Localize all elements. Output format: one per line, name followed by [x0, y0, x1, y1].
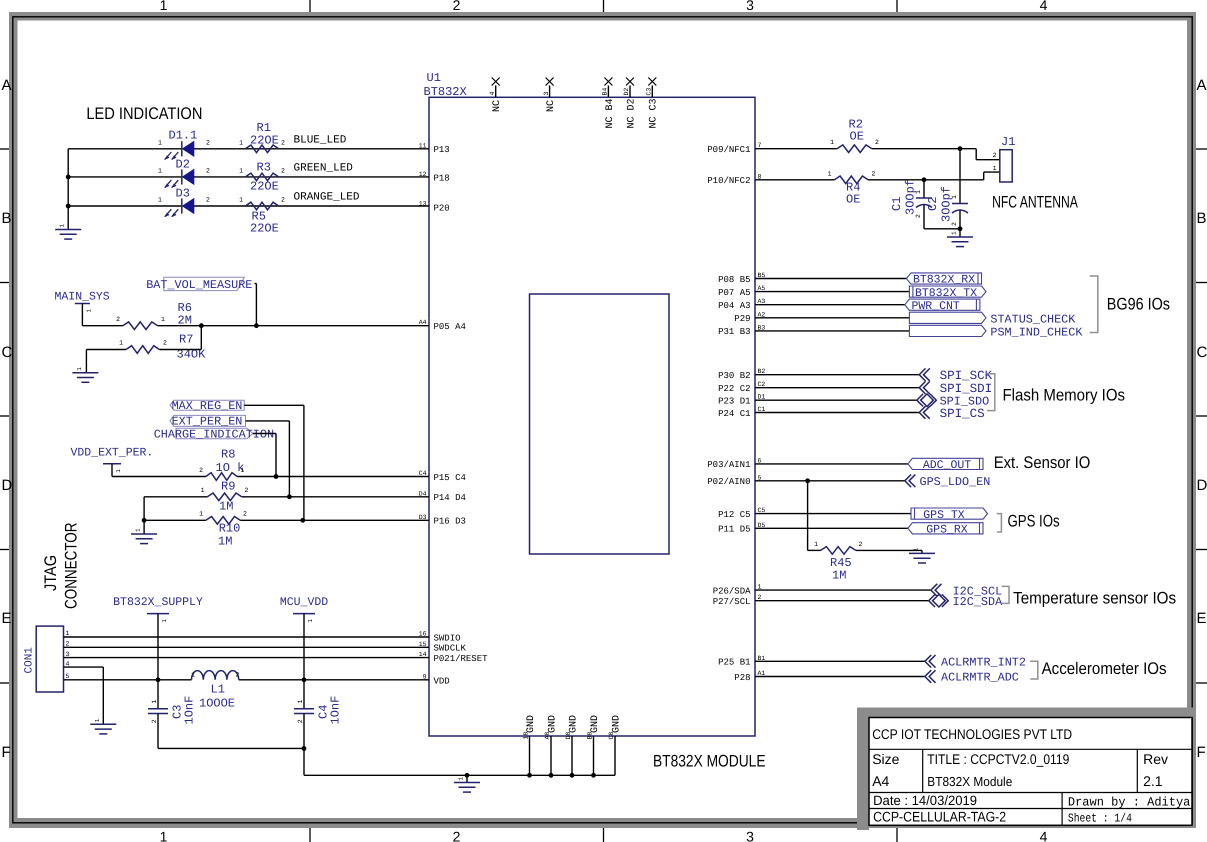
- section header NFC ANTENNA: [992, 192, 1078, 211]
- connector J1: [993, 135, 1016, 182]
- svg-text:C1: C1: [890, 197, 904, 211]
- svg-text:NC B4: NC B4: [605, 98, 616, 128]
- svg-text:Size: Size: [872, 751, 899, 767]
- svg-text:1M: 1M: [832, 569, 846, 583]
- svg-text:1: 1: [951, 195, 958, 199]
- svg-text:2: 2: [245, 487, 249, 494]
- wire P02/AIN0 row: [755, 480, 905, 482]
- resistor R4 0E: [828, 170, 876, 206]
- node NFC2/C1 junction: [922, 177, 927, 182]
- net flag BT832X_TX: [909, 286, 986, 300]
- svg-text:P29: P29: [734, 314, 750, 324]
- ground LED bus: [55, 224, 81, 240]
- svg-text:CCP-CELLULAR-TAG-2: CCP-CELLULAR-TAG-2: [873, 808, 1006, 824]
- svg-text:PSM_IND_CHECK: PSM_IND_CHECK: [990, 325, 1083, 339]
- wire RESET: [64, 657, 430, 659]
- svg-text:1: 1: [239, 167, 243, 174]
- svg-text:2: 2: [993, 152, 997, 159]
- svg-text:22OE: 22OE: [250, 222, 279, 236]
- svg-text:D: D: [1197, 477, 1207, 494]
- capacitor C1 300pf: [890, 179, 932, 229]
- LED D3: [158, 187, 210, 218]
- svg-text:1: 1: [151, 700, 158, 704]
- capacitor C2 300pf: [926, 149, 968, 229]
- svg-text:1: 1: [158, 139, 162, 146]
- svg-text:ADC_OUT: ADC_OUT: [923, 459, 971, 472]
- svg-text:1: 1: [66, 630, 70, 637]
- wire CON1 pin4 to ground: [64, 667, 104, 724]
- svg-text:B: B: [1197, 210, 1207, 227]
- node NFC1/C2 junction: [958, 146, 963, 151]
- node LED bus junction D2: [66, 175, 71, 180]
- svg-text:BT832X_SUPPLY: BT832X_SUPPLY: [113, 596, 203, 609]
- section header LED INDICATION: [86, 104, 202, 123]
- U1 right pin names and numbers: [707, 142, 765, 683]
- U1 left pin names and numbers: [419, 142, 488, 686]
- svg-text:F: F: [2, 744, 11, 761]
- svg-text:U1: U1: [427, 71, 441, 85]
- svg-text:22OE: 22OE: [250, 134, 279, 148]
- net flag STATUS_CHECK: [909, 312, 1076, 326]
- svg-text:P30 B2: P30 B2: [718, 371, 750, 381]
- svg-text:NC D2: NC D2: [626, 98, 637, 128]
- wire R7 network: [86, 326, 201, 373]
- wire P08 row: [755, 278, 906, 280]
- svg-text:Rev: Rev: [1143, 751, 1168, 767]
- wire CHARGE_INDICATION to P15 row: [253, 434, 276, 477]
- svg-text:P08 B5: P08 B5: [718, 275, 750, 285]
- svg-text:SPI_SDO: SPI_SDO: [940, 395, 990, 409]
- svg-text:R9: R9: [221, 480, 235, 494]
- svg-text:P14 D4: P14 D4: [434, 493, 466, 503]
- svg-text:BT832X: BT832X: [424, 85, 467, 99]
- svg-text:2: 2: [453, 0, 461, 13]
- svg-text:P15 C4: P15 C4: [434, 473, 466, 483]
- svg-text:2: 2: [859, 541, 863, 548]
- node LED bus junction D3: [66, 204, 71, 209]
- wire R9R10 to ground: [143, 520, 145, 534]
- svg-text:1OOOE: 1OOOE: [199, 697, 235, 711]
- net flag BAT_VOL_MEASURE: [146, 277, 256, 325]
- net chevrons SPI_SCK: [919, 368, 992, 383]
- svg-text:P28: P28: [734, 673, 750, 683]
- svg-text:2: 2: [199, 467, 203, 474]
- resistor R9 1M: [201, 480, 249, 514]
- svg-text:1: 1: [307, 619, 314, 623]
- svg-text:P18: P18: [434, 174, 450, 184]
- svg-text:GPS_RX: GPS_RX: [926, 524, 968, 537]
- svg-text:1: 1: [458, 777, 465, 781]
- svg-text:P23 D1: P23 D1: [718, 397, 750, 407]
- power symbol BT832X_SUPPLY: [113, 596, 203, 680]
- node P14/EXT junction: [287, 494, 292, 499]
- svg-text:Date : 14/03/2019: Date : 14/03/2019: [873, 793, 977, 808]
- svg-text:1: 1: [158, 197, 162, 204]
- svg-text:1M: 1M: [218, 535, 232, 549]
- wire SPI_SCK row: [755, 374, 919, 376]
- svg-text:CCP IOT TECHNOLOGIES PVT LTD: CCP IOT TECHNOLOGIES PVT LTD: [872, 726, 1072, 742]
- svg-text:Ext. Sensor IO: Ext. Sensor IO: [994, 453, 1091, 472]
- wire SWDCLK: [64, 646, 430, 648]
- svg-text:P021/RESET: P021/RESET: [434, 654, 489, 664]
- svg-text:SWDIO: SWDIO: [434, 633, 461, 643]
- svg-text:2: 2: [163, 340, 167, 347]
- LED D2: [158, 158, 210, 189]
- inductor L1 1000E: [191, 671, 239, 711]
- svg-text:NC: NC: [492, 100, 503, 112]
- svg-text:P10/NFC2: P10/NFC2: [707, 176, 750, 186]
- svg-text:3: 3: [66, 651, 70, 658]
- svg-text:P12 C5: P12 C5: [718, 510, 750, 520]
- net flag GPS_RX: [908, 523, 983, 537]
- node R6/R7 junction: [199, 323, 204, 328]
- svg-text:4: 4: [66, 660, 70, 667]
- svg-text:2: 2: [281, 197, 285, 204]
- net chevrons GPS_LDO_EN: [905, 475, 990, 490]
- wire MAIN_SYS to R6: [82, 325, 122, 327]
- node C2 ground junction: [958, 226, 963, 231]
- svg-text:1: 1: [814, 541, 818, 548]
- svg-text:P24 C1: P24 C1: [718, 409, 750, 419]
- wire P09/NFC1 row: [755, 149, 1000, 160]
- svg-text:F: F: [1197, 744, 1206, 761]
- svg-text:GND: GND: [547, 715, 558, 733]
- svg-text:VDD: VDD: [434, 676, 450, 686]
- section label BT832X MODULE: [653, 752, 766, 771]
- resistor R8 10k: [199, 448, 244, 481]
- svg-text:D2: D2: [623, 88, 630, 96]
- resistor R3 22OE: [239, 161, 285, 194]
- svg-text:SPI_CS: SPI_CS: [940, 407, 985, 421]
- svg-text:GPS_LDO_EN: GPS_LDO_EN: [920, 475, 991, 489]
- net flag ADC_OUT: [908, 458, 983, 472]
- svg-text:D: D: [2, 477, 13, 494]
- svg-text:P27/SCL: P27/SCL: [713, 597, 751, 607]
- svg-text:I2C_SDA: I2C_SDA: [953, 595, 1003, 609]
- svg-text:EXT_PER_EN: EXT_PER_EN: [172, 415, 243, 429]
- svg-text:1OnF: 1OnF: [329, 696, 343, 725]
- svg-text:R10: R10: [219, 522, 241, 536]
- svg-text:J1: J1: [1001, 135, 1015, 149]
- net flag GPS_TX: [911, 508, 988, 522]
- net flag PWR_CNT: [905, 299, 980, 313]
- net flag CHARGE_INDICATION: [154, 428, 274, 442]
- wire P27/SCL row: [755, 600, 929, 602]
- svg-text:1: 1: [135, 528, 142, 532]
- svg-text:1: 1: [94, 718, 101, 722]
- svg-text:P03/AIN1: P03/AIN1: [707, 460, 750, 470]
- svg-text:3OOpf: 3OOpf: [940, 186, 954, 222]
- svg-text:1: 1: [115, 469, 122, 473]
- svg-text:1: 1: [915, 190, 922, 194]
- connector CON1: [24, 626, 64, 692]
- wire LED common bus: [67, 149, 69, 230]
- svg-text:P16 D3: P16 D3: [434, 517, 466, 527]
- node supply junction C3: [156, 677, 161, 682]
- net name BLUE_LED: [294, 135, 347, 147]
- svg-text:18: 18: [523, 732, 530, 740]
- capacitor C4 10nF: [294, 680, 343, 776]
- wire P11 row: [755, 527, 908, 529]
- net marker I2C_SDA bidirectional: [929, 594, 1003, 609]
- op-amp U1 BT832X module body: [429, 97, 755, 736]
- svg-text:1: 1: [241, 467, 245, 474]
- ground R7: [72, 367, 98, 383]
- node BAT_VOL_MEASURE tap: [254, 323, 259, 328]
- svg-text:C2: C2: [926, 197, 940, 211]
- svg-text:SPI_SCK: SPI_SCK: [940, 369, 993, 383]
- svg-text:BG96 IOs: BG96 IOs: [1107, 295, 1170, 314]
- svg-text:2: 2: [281, 139, 285, 146]
- svg-text:1: 1: [239, 139, 243, 146]
- U1 reference designator: [424, 71, 467, 99]
- bracket BG96 IOs: [1090, 276, 1170, 333]
- svg-text:P26/SDA: P26/SDA: [713, 586, 751, 596]
- wire P03/AIN1 row: [755, 463, 908, 465]
- svg-text:A4: A4: [872, 773, 889, 789]
- svg-text:BT832X Module: BT832X Module: [927, 774, 1012, 789]
- net chevrons ACLRMTR_ADC: [925, 670, 1019, 685]
- svg-text:2: 2: [281, 167, 285, 174]
- svg-text:P22 C2: P22 C2: [718, 384, 750, 394]
- svg-text:D8: D8: [565, 732, 572, 740]
- svg-text:2: 2: [151, 719, 158, 723]
- svg-text:R7: R7: [179, 333, 193, 347]
- svg-text:P05 A4: P05 A4: [434, 322, 466, 332]
- svg-text:D2: D2: [176, 158, 190, 172]
- svg-text:1: 1: [160, 829, 168, 842]
- svg-text:LED INDICATION: LED INDICATION: [86, 104, 202, 123]
- wire P12 row: [755, 513, 911, 515]
- svg-text:P31 B3: P31 B3: [718, 327, 750, 337]
- wire P04 row: [755, 304, 905, 306]
- svg-text:1: 1: [239, 197, 243, 204]
- svg-text:4: 4: [1040, 829, 1048, 842]
- svg-text:OE: OE: [846, 193, 860, 207]
- svg-text:GND: GND: [590, 715, 601, 733]
- svg-text:1: 1: [76, 367, 83, 371]
- resistor R7 340K: [119, 333, 206, 362]
- net name ORANGE_LED: [294, 192, 360, 204]
- resistor R5 22OE: [239, 197, 285, 236]
- resistor R10 1M: [199, 511, 247, 549]
- svg-text:1: 1: [160, 0, 168, 13]
- svg-text:A: A: [2, 77, 12, 94]
- net chevrons SPI_SDI: [919, 381, 992, 396]
- wire gnd bus drop: [466, 775, 468, 782]
- svg-text:PWR_CNT: PWR_CNT: [912, 300, 960, 313]
- svg-text:Accelerometer IOs: Accelerometer IOs: [1042, 659, 1167, 678]
- capacitor C3 10nF: [148, 680, 197, 749]
- svg-text:B4: B4: [602, 88, 609, 96]
- svg-text:P04 A3: P04 A3: [718, 301, 750, 311]
- svg-text:A8: A8: [544, 732, 551, 740]
- resistor R45 1M: [814, 541, 862, 583]
- svg-text:2: 2: [206, 197, 210, 204]
- svg-text:TITLE : CCPCTV2.0_0119: TITLE : CCPCTV2.0_0119: [927, 751, 1069, 767]
- section header JTAG CONNECTOR: [41, 523, 81, 610]
- svg-text:3: 3: [746, 829, 754, 842]
- node P15/CHARGE junction: [274, 474, 279, 479]
- wire P31 row: [755, 330, 909, 332]
- svg-text:C: C: [1197, 344, 1207, 361]
- svg-text:B8: B8: [587, 732, 594, 740]
- svg-text:C: C: [2, 344, 13, 361]
- wire ORANGE_LED row: [68, 205, 429, 207]
- bracket Accelerometer IOs: [1030, 659, 1166, 679]
- svg-text:C8: C8: [608, 732, 615, 740]
- bracket Temperature sensor IOs: [1002, 586, 1176, 607]
- svg-text:BT832X MODULE: BT832X MODULE: [653, 752, 766, 771]
- svg-text:1: 1: [201, 487, 205, 494]
- wire SPI_SDO row: [755, 399, 917, 401]
- svg-text:22OE: 22OE: [250, 180, 279, 194]
- net flag MAX_REG_EN: [170, 399, 244, 413]
- svg-text:Flash Memory IOs: Flash Memory IOs: [1003, 386, 1126, 405]
- svg-text:1: 1: [158, 167, 162, 174]
- svg-text:R3: R3: [257, 161, 271, 175]
- svg-text:L1: L1: [211, 682, 225, 696]
- svg-text:STATUS_CHECK: STATUS_CHECK: [990, 312, 1076, 326]
- wire P25 row: [755, 660, 925, 662]
- wire P14 row: [144, 497, 429, 521]
- svg-text:4: 4: [1040, 0, 1048, 13]
- svg-text:GPS_TX: GPS_TX: [923, 509, 965, 522]
- svg-text:Temperature sensor IOs: Temperature sensor IOs: [1013, 588, 1176, 607]
- U1 inner antenna outline: [530, 294, 670, 554]
- svg-text:ACLRMTR_INT2: ACLRMTR_INT2: [941, 656, 1026, 670]
- svg-text:1: 1: [828, 170, 832, 177]
- node MCU_VDD junction C4: [302, 677, 307, 682]
- svg-text:2: 2: [206, 167, 210, 174]
- svg-text:3: 3: [543, 92, 550, 96]
- U1 bottom GND pins: [523, 715, 623, 775]
- svg-text:2: 2: [116, 316, 120, 323]
- svg-text:2: 2: [236, 672, 240, 679]
- wire SPI_SDI row: [755, 387, 919, 389]
- wire GREEN_LED row: [68, 176, 429, 178]
- ground main: [454, 777, 480, 793]
- node P16/MAX junction: [300, 518, 305, 523]
- CON1 pin numbers: [66, 630, 70, 680]
- svg-text:VDD_EXT_PER.: VDD_EXT_PER.: [71, 447, 154, 460]
- svg-text:NC C3: NC C3: [649, 98, 660, 128]
- net chevrons SPI_CS: [919, 406, 984, 421]
- title block: [857, 708, 1193, 831]
- svg-text:1: 1: [119, 340, 123, 347]
- svg-text:1: 1: [85, 309, 92, 313]
- power symbol VDD_EXT_PER.: [71, 447, 154, 477]
- svg-text:2: 2: [951, 222, 958, 226]
- svg-text:BT832X_TX: BT832X_TX: [915, 287, 977, 300]
- svg-text:1: 1: [951, 231, 958, 235]
- svg-text:1: 1: [59, 224, 66, 228]
- svg-text:P07 A5: P07 A5: [718, 288, 750, 298]
- svg-text:CONNECTOR: CONNECTOR: [62, 523, 81, 610]
- svg-text:2: 2: [875, 139, 879, 146]
- wire SWDIO: [64, 636, 430, 638]
- svg-text:5: 5: [66, 673, 70, 680]
- wire P28 row: [755, 676, 925, 678]
- svg-text:E: E: [2, 610, 12, 627]
- power symbol MAIN_SYS: [55, 291, 110, 326]
- net flag BT832X_RX: [906, 273, 981, 287]
- svg-text:D1.1: D1.1: [169, 129, 198, 143]
- svg-text:MAIN_SYS: MAIN_SYS: [55, 291, 110, 304]
- node C4 bottom junction: [302, 746, 307, 751]
- svg-text:P02/AIN0: P02/AIN0: [707, 477, 750, 487]
- svg-text:NFC ANTENNA: NFC ANTENNA: [992, 192, 1078, 211]
- svg-text:C3: C3: [646, 88, 653, 96]
- svg-text:2: 2: [915, 214, 922, 218]
- svg-text:P11 D5: P11 D5: [718, 525, 750, 535]
- net flag EXT_PER_EN: [170, 415, 246, 429]
- svg-text:1: 1: [913, 547, 920, 551]
- resistor R2 0E: [830, 118, 879, 153]
- svg-text:1: 1: [161, 619, 168, 623]
- svg-text:Sheet : 1/4: Sheet : 1/4: [1068, 811, 1132, 825]
- svg-text:MCU_VDD: MCU_VDD: [280, 596, 328, 609]
- ground R45: [909, 547, 935, 563]
- svg-text:B: B: [2, 210, 12, 227]
- svg-text:2: 2: [872, 170, 876, 177]
- svg-text:4: 4: [489, 92, 496, 96]
- resistor R1 22OE: [239, 121, 285, 153]
- wire VDD rail: [64, 679, 430, 681]
- svg-text:2: 2: [66, 641, 70, 648]
- svg-text:JTAG: JTAG: [41, 555, 60, 591]
- wire EXT_PER_EN to P14 row: [246, 421, 290, 497]
- U1 top NC pins with no-connect X marks: [489, 78, 660, 129]
- svg-text:GND: GND: [526, 715, 537, 733]
- ground R9/R10: [131, 528, 157, 544]
- svg-text:CHARGE_INDICATION: CHARGE_INDICATION: [154, 428, 274, 442]
- ground CON1 pin4: [90, 718, 116, 734]
- resistor R6 2M: [116, 301, 192, 330]
- svg-text:GND: GND: [568, 715, 579, 733]
- net chevrons I2C_SCL: [931, 584, 1002, 599]
- svg-text:BAT_VOL_MEASURE: BAT_VOL_MEASURE: [146, 278, 252, 292]
- svg-text:GREEN_LED: GREEN_LED: [294, 163, 354, 175]
- svg-text:P25 B1: P25 B1: [718, 658, 750, 668]
- svg-text:NC: NC: [546, 100, 557, 112]
- bracket Flash Memory IOs: [987, 374, 1125, 411]
- svg-text:2: 2: [297, 719, 304, 723]
- wire C3 bottom to C4: [158, 747, 304, 749]
- wire P26/SDA row: [755, 589, 931, 591]
- wire P16 row: [144, 519, 429, 521]
- wire ground bus under U1: [304, 774, 615, 776]
- wire R6 to U1 P05: [158, 325, 429, 327]
- svg-text:3: 3: [746, 0, 754, 13]
- wire R45 tap: [808, 481, 922, 554]
- svg-text:P13: P13: [434, 145, 450, 155]
- svg-text:1: 1: [161, 316, 165, 323]
- svg-text:BT832X_RX: BT832X_RX: [913, 274, 975, 287]
- node R45 tap: [805, 478, 810, 483]
- svg-text:1: 1: [191, 672, 195, 679]
- svg-text:2.1: 2.1: [1143, 773, 1163, 789]
- wire P07 row: [755, 291, 909, 293]
- svg-text:E: E: [1197, 610, 1207, 627]
- ground NFC: [947, 229, 973, 247]
- svg-text:P09/NFC1: P09/NFC1: [707, 145, 750, 155]
- wire P29 row: [755, 317, 909, 319]
- svg-text:ORANGE_LED: ORANGE_LED: [294, 192, 360, 204]
- svg-text:1OnF: 1OnF: [183, 696, 197, 725]
- wire P15 row: [112, 476, 429, 478]
- svg-text:2: 2: [243, 511, 247, 518]
